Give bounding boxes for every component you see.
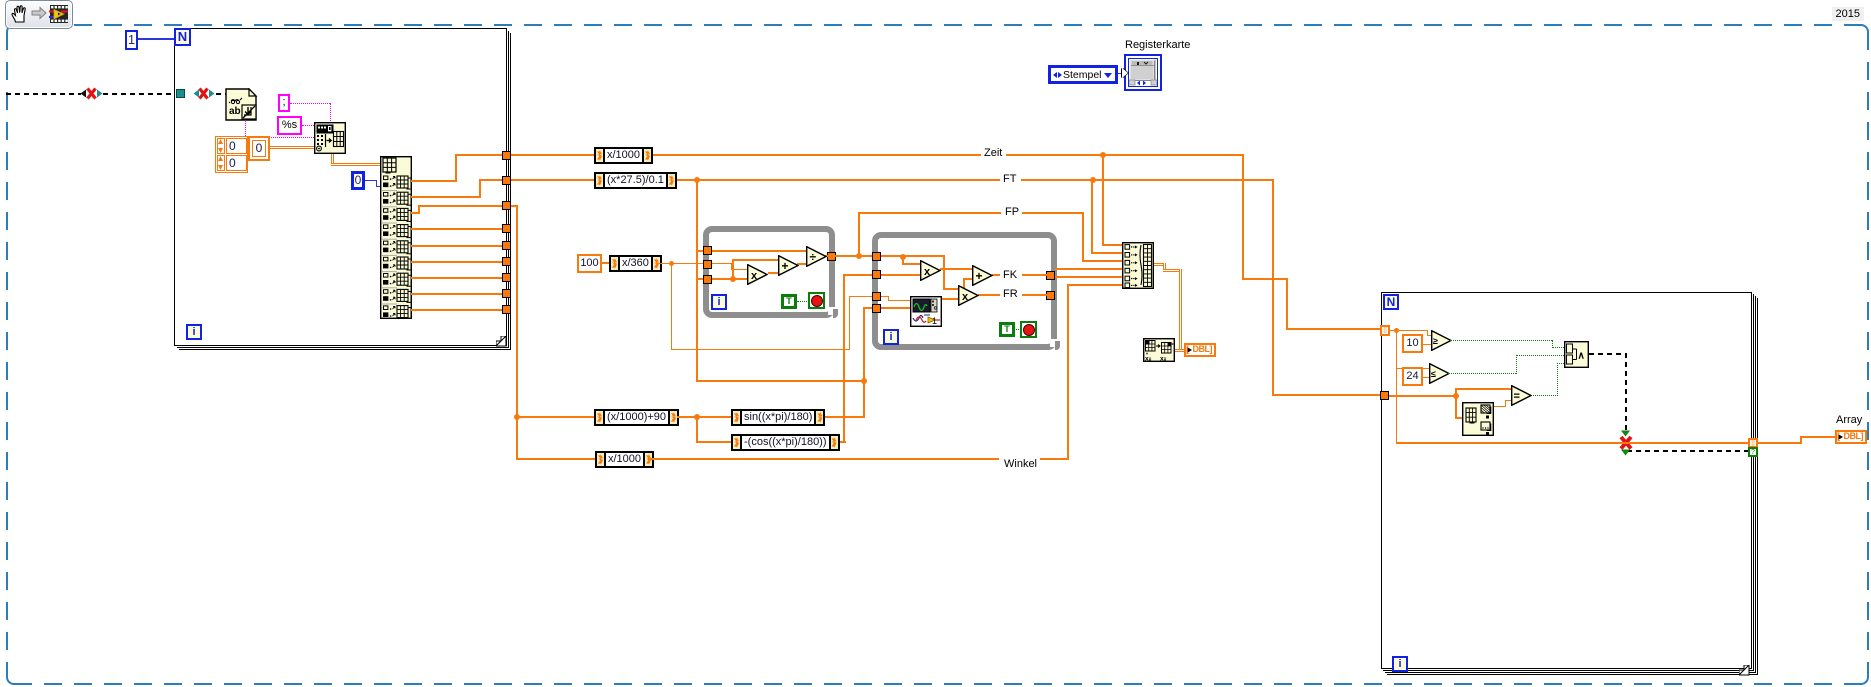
wire riser to add bottom <box>0 0 1871 1</box>
tunnel loop2 out (FK) <box>1046 271 1055 280</box>
svg-text:÷: ÷ <box>810 250 817 264</box>
magenta wire %s to node <box>302 125 314 126</box>
svg-text:ab: ab <box>229 106 241 117</box>
tunnel loop L out 7 <box>502 273 511 282</box>
tunnel loop L out 5 <box>502 241 511 250</box>
tunnel loop2 in 1 <box>872 252 881 261</box>
expression node x/360 <box>609 255 662 272</box>
wire FR label to tunnel <box>1022 294 1047 296</box>
multiply triangle loop2 upper <box>920 260 941 281</box>
add triangle loop1 <box>778 255 799 276</box>
divide triangle loop1 <box>806 246 827 267</box>
label Zeit <box>981 147 1005 160</box>
wire loop1 junction to add top <box>0 0 1871 1</box>
tunnel loop1 out (FP) <box>827 252 836 261</box>
spreadsheet-string-to-array node <box>0 0 1871 1</box>
wire FP row <box>0 0 1871 1</box>
index array output wires rows 4-9 <box>0 0 1871 1</box>
wire into build array row4 <box>1055 268 1123 270</box>
tunnel loop L out 9 <box>502 305 511 314</box>
boolean dotted wire from LE to AND <box>0 0 1871 1</box>
index array output wire row1 to tunnel (Zeit source) <box>0 0 1871 1</box>
wire Winkel row <box>0 0 1871 1</box>
wire add to FK label <box>992 274 1001 276</box>
wire add to divide <box>797 263 807 265</box>
auto-index input tunnel (Zeit array) <box>1380 325 1390 336</box>
2D array wire constant to spreadsheet node <box>270 146 314 149</box>
svg-text:+: + <box>976 269 983 283</box>
array constant 0 0 <box>0 0 1871 1</box>
2D wire build array to transpose <box>0 0 1871 1</box>
greater-or-equal triangle <box>1431 330 1452 351</box>
array indicator DBL <box>1835 430 1867 444</box>
wire loop1 tunnel1 to divide top <box>712 250 809 252</box>
expression node x/1000 (Winkel) <box>595 451 654 468</box>
tunnel loop L out 2 (FT) <box>502 176 511 185</box>
while-loop 1 corner notch <box>0 0 1871 1</box>
wire multiply2 to FR label <box>978 294 1001 296</box>
svg-text:x: x <box>924 266 931 278</box>
wire 100 to x/360 <box>602 262 610 264</box>
less-or-equal triangle <box>1429 363 1450 384</box>
wire FT row <box>0 0 1871 1</box>
string constant ; <box>278 94 290 112</box>
wire cos output up to loop2 tunnel2 <box>0 0 1871 1</box>
2D array indicator DBL <box>1184 343 1216 357</box>
index array output wire row3 to tunnel <box>0 0 1871 1</box>
wire Zeit row <box>0 0 1871 1</box>
for-loop R iteration terminal i <box>1392 656 1408 672</box>
blue wire 0 to index array <box>0 0 1871 1</box>
orange wire (auto-indexed values) to conditional tunnel <box>1396 442 1748 444</box>
teal tunnel on loop border <box>176 89 185 98</box>
wires from tunnel1 inside loop R <box>0 0 1871 1</box>
expression node sin((x*pi)/180) <box>731 409 825 426</box>
loop2 iteration terminal i <box>883 329 899 345</box>
label FT <box>1000 173 1019 186</box>
tunnel loop2 in 4 <box>872 304 881 313</box>
toolbar <box>5 0 73 29</box>
for-loop L dog-ear corner <box>0 0 1871 1</box>
input tunnel (FT array) <box>1380 391 1389 400</box>
tunnel loop2 out (FR) <box>1046 291 1055 300</box>
while-loop 2 corner notch <box>0 0 1871 1</box>
svg-text:=: = <box>1514 391 1520 403</box>
tunnel loop1 in 3 <box>703 275 712 284</box>
wire multiply1 to add <box>940 268 972 270</box>
index array output wire row2 to tunnel (FT source) <box>0 0 1871 1</box>
wire scope to multiply2 bottom <box>942 298 958 300</box>
tab control terminal Registerkarte <box>0 0 1871 1</box>
equality triangle <box>1511 385 1532 406</box>
tunnel loop2 in 3 <box>872 292 881 301</box>
junction loop2 <box>900 254 906 260</box>
animation/filmstrip icon <box>50 5 68 23</box>
numeric constant 100 <box>577 254 602 273</box>
loop1 iteration terminal i <box>711 294 727 310</box>
wire loop2 junction to multiply1 top <box>0 0 1871 1</box>
tunnel loop1 in 1 <box>703 246 712 255</box>
wire x/360 output (thin scalar) <box>0 0 1871 1</box>
svg-text:x: x <box>751 270 758 282</box>
compound AND node <box>0 0 1871 1</box>
index array node (9 outputs) <box>0 0 1871 1</box>
transpose 2D array node <box>0 0 1871 1</box>
broken wire X with arrows <box>0 0 1871 1</box>
svg-text:≥: ≥ <box>1433 336 1438 346</box>
hand tool icon <box>12 6 25 22</box>
label Array <box>1836 414 1862 426</box>
dashed boolean wire AND to conditional tunnel <box>0 0 1871 1</box>
wire from FT branch down to loop1 and across <box>0 0 1871 1</box>
tunnel loop L out 6 <box>502 257 511 266</box>
wire FK label to tunnel <box>1022 274 1047 276</box>
for-loop L count terminal N <box>174 28 191 46</box>
expression node -(cos((x*pi)/180)) <box>731 434 840 451</box>
label Registerkarte <box>1125 39 1190 51</box>
wire divide to FP tunnel <box>825 255 861 257</box>
label FK <box>1000 269 1020 282</box>
wire loop1 tunnel2 to multiply top <box>0 0 1871 1</box>
wire Stempel to Registerkarte <box>1118 73 1126 74</box>
loop2 stop button <box>1020 321 1037 338</box>
wire 24 to comparison <box>1423 377 1431 378</box>
for-loop R dog-ear corner <box>0 0 1871 1</box>
wire loop2 tunnel2 to multiply1 bottom <box>881 274 920 276</box>
wire loop2 tunnel4 to scope <box>881 307 910 309</box>
svg-text:x: x <box>962 291 969 303</box>
multiply triangle loop1 <box>747 264 768 285</box>
wire 10 to comparison <box>1423 344 1433 345</box>
expression node (x*27.5)/0.1 (FT) <box>594 172 677 189</box>
wire FK tunnel to build array <box>1055 276 1123 278</box>
numeric constant 0 (blue) <box>351 171 365 190</box>
expression node (x/1000)+90 <box>594 409 679 426</box>
wire loop1 tunnel3 to multiply bottom <box>712 278 747 280</box>
thick wire tunnel2 to equality <box>0 0 1871 1</box>
loop2 T constant <box>999 322 1015 337</box>
for-loop L iteration terminal i <box>186 324 202 340</box>
label Winkel <box>1001 458 1040 471</box>
loop2 dotted wire to stop <box>1014 329 1021 330</box>
wire loop2 tunnel3 to scope <box>0 0 1871 1</box>
magenta wire ; to node <box>0 0 1871 1</box>
loop1 T constant <box>781 294 797 309</box>
wire tunnel to Array indicator <box>0 0 1871 1</box>
waveform scope node loop2 <box>0 0 1871 1</box>
label FP <box>1002 206 1022 219</box>
svg-text:≤: ≤ <box>1431 369 1436 379</box>
constant 1 <box>125 30 138 50</box>
wire tunnel3 down to sin/cos rows <box>0 0 1871 1</box>
wire 1 to N <box>138 38 174 40</box>
build array node <box>0 0 1871 1</box>
enum constant Stempel <box>1048 65 1118 84</box>
junction loop1 <box>730 276 736 282</box>
read-from-text-file node <box>0 0 1871 1</box>
numeric constant 0 (orange) <box>248 136 270 161</box>
wire (x/1000)+90 output to sin and cos <box>0 0 1871 1</box>
index array node (right loop) <box>0 0 1871 1</box>
broken wire glyphs group 2 <box>0 0 1871 1</box>
conditional indexing output tunnel <box>0 0 1871 1</box>
for-loop R count terminal N <box>1383 294 1399 310</box>
while-loop 1 border <box>703 226 835 318</box>
broken wire glyphs group 1 <box>0 0 1871 1</box>
thin wire index node to equality <box>0 0 1871 1</box>
wire loop2 junction to multiply2 top <box>0 0 1871 1</box>
broken dashed class wire entering loop <box>0 0 1871 1</box>
boolean dotted wire from EQ to AND <box>0 0 1871 1</box>
tunnel loop L out 4 <box>502 224 511 233</box>
loop1 stop button <box>808 292 825 309</box>
wire multiply to add <box>768 272 778 274</box>
tunnel loop L out 1 (Zeit) <box>502 151 511 160</box>
boolean dotted wire from GE to AND <box>0 0 1871 1</box>
svg-text:∧: ∧ <box>1578 351 1585 362</box>
label FR <box>1000 288 1021 301</box>
magenta wire from file node down to spreadsheet node <box>0 0 1871 1</box>
wire loop2 tunnel1 in <box>881 255 906 257</box>
next/arrow icon <box>32 8 46 19</box>
loop1 dotted wire to stop <box>797 301 809 302</box>
multiply triangle loop2 lower <box>958 285 979 306</box>
wire sin output up to loop2 tunnel4 <box>0 0 1871 1</box>
tunnel loop L out 3 <box>502 201 511 210</box>
expression node x/1000 (Zeit) <box>594 147 653 164</box>
numeric constant 24 <box>1402 367 1423 386</box>
svg-text:+: + <box>782 259 789 273</box>
string constant %s <box>277 116 302 135</box>
year label 2015 <box>1832 7 1864 21</box>
for-loop L (main left loop) border <box>0 0 1871 1</box>
2D wire spreadsheet node to index array <box>0 0 1871 1</box>
tunnel loop2 in 2 <box>872 270 881 279</box>
numeric constant 10 <box>1402 334 1423 353</box>
add triangle loop2 <box>972 265 993 286</box>
while-loop 2 border <box>872 232 1057 350</box>
for-loop R border <box>0 0 1871 1</box>
tunnel loop1 in 2 <box>703 260 712 269</box>
outer dashed structure border <box>0 0 1871 1</box>
tunnel loop L out 8 <box>502 289 511 298</box>
